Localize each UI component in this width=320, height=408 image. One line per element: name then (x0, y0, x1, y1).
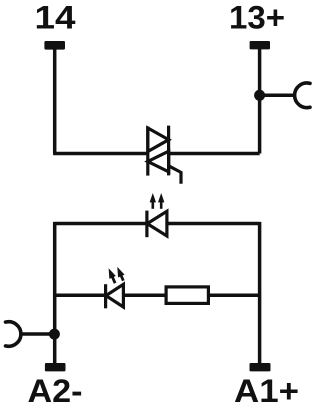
svg-text:13+: 13+ (229, 0, 285, 36)
svg-text:14: 14 (35, 0, 76, 36)
svg-text:A2-: A2- (28, 373, 83, 408)
svg-text:A1+: A1+ (234, 373, 299, 408)
